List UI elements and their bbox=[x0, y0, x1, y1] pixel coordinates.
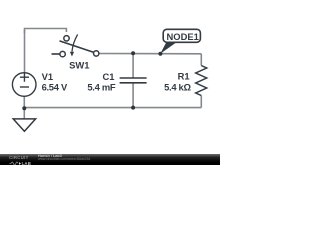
NODE1 callout pointer bbox=[160, 42, 176, 54]
wire bottom horizontal rail bbox=[24, 107, 201, 109]
watermark bar bbox=[0, 154, 220, 165]
svg-text:6.54 V: 6.54 V bbox=[42, 82, 68, 93]
ground bbox=[13, 119, 35, 131]
junction dot at V1/ground/bottom rail bbox=[22, 106, 26, 110]
switch SW1 top throw contact bbox=[64, 36, 69, 41]
watermark url bbox=[38, 158, 90, 162]
capacitor C1 bbox=[120, 78, 147, 83]
svg-text:NODE1: NODE1 bbox=[167, 31, 199, 42]
switch SW1 left throw stub bbox=[52, 53, 60, 55]
switch SW1 actuator arrow bbox=[72, 34, 78, 51]
wire V1 bottom to ground bbox=[23, 96, 25, 119]
svg-text:LAB: LAB bbox=[22, 161, 31, 165]
resistor R1 bbox=[196, 66, 207, 96]
watermark title Harish / Lab3 bbox=[38, 154, 62, 158]
junction dot at C1 top bbox=[131, 51, 135, 55]
svg-text:5.4 mF: 5.4 mF bbox=[87, 82, 115, 93]
switch SW1 common contact bbox=[94, 51, 99, 56]
wire R1 right rail bbox=[200, 54, 202, 108]
junction dot at NODE1 bbox=[158, 52, 162, 56]
wire left rail V1 top bbox=[24, 30, 26, 73]
CircuitLab logo bbox=[9, 156, 39, 165]
wire C1 vertical leads bbox=[132, 53, 134, 107]
switch SW1 blade bbox=[60, 41, 94, 53]
NODE1 callout box bbox=[163, 29, 200, 42]
wire mid horizontal from SW1 common to R1 bbox=[99, 53, 202, 55]
voltage source V1 bbox=[12, 73, 36, 97]
wire top horizontal from V1 to SW1 bbox=[25, 29, 67, 34]
junction dot at C1 bottom bbox=[131, 106, 135, 110]
svg-text:5.4 kΩ: 5.4 kΩ bbox=[164, 81, 191, 92]
svg-text:R1: R1 bbox=[178, 71, 190, 82]
svg-text:SW1: SW1 bbox=[69, 60, 89, 71]
switch SW1 left throw contact bbox=[60, 51, 65, 56]
